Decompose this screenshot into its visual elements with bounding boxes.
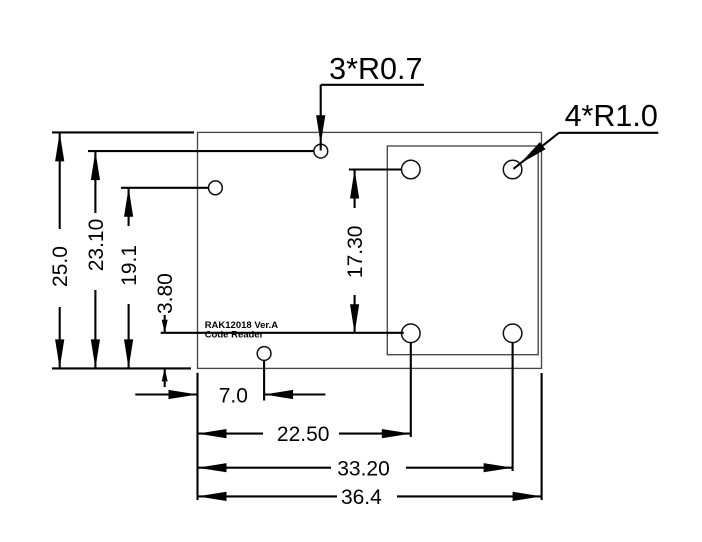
- svg-text:3*R0.7: 3*R0.7: [329, 52, 422, 86]
- dimension 23.10 line and arrows: [91, 151, 100, 368]
- dimension 33.20 extension line hole G: [512, 343, 514, 471]
- svg-text:4*R1.0: 4*R1.0: [565, 99, 658, 133]
- dimension 19.1 extension line: [121, 187, 209, 189]
- dimension 17.30 line and arrows: [350, 170, 359, 334]
- hole G module bottom-right R1.0: [503, 324, 522, 343]
- svg-text:Code Reader: Code Reader: [205, 330, 264, 341]
- dimension 25.0 line and arrows: [55, 132, 64, 368]
- hole A top R0.7: [314, 144, 328, 158]
- dimension 36.4 line and arrows: [198, 492, 542, 501]
- dimension 19.1 line and arrows: [124, 188, 133, 369]
- hole E module top-right R1.0: [503, 160, 522, 179]
- dimension 22.50 extension line hole F: [410, 343, 412, 437]
- dimension 3.80 lower arrow: [162, 368, 168, 387]
- svg-text:3.80: 3.80: [154, 273, 177, 314]
- board outline: [198, 132, 542, 368]
- dimension 25.0 extension line top: [52, 131, 194, 133]
- hole F module bottom-left R1.0: [402, 324, 421, 343]
- dimension 3.80 upper arrow: [162, 315, 168, 333]
- dimension 7.0 right arrow: [264, 390, 325, 399]
- leader 3*R0.7 lines and arrow: [316, 85, 424, 151]
- camera module outline: [387, 146, 538, 355]
- dimension 25.0 extension line bottom: [52, 367, 191, 369]
- dimension 33.20 line and arrows: [198, 463, 513, 472]
- svg-text:22.50: 22.50: [277, 423, 330, 446]
- extension line board left edge below: [196, 373, 198, 500]
- dimension 23.10 extension line: [88, 150, 314, 152]
- dimension 22.50 line and arrows: [198, 429, 411, 438]
- svg-text:19.1: 19.1: [118, 245, 141, 286]
- svg-text:17.30: 17.30: [344, 226, 367, 279]
- svg-text:23.10: 23.10: [85, 219, 108, 272]
- hole B left R0.7: [209, 181, 223, 195]
- dimension 36.4 extension line board right edge: [541, 373, 543, 500]
- svg-text:33.20: 33.20: [337, 457, 390, 480]
- svg-text:36.4: 36.4: [341, 486, 382, 509]
- dimension 17.30 extension line top: [349, 168, 402, 170]
- leader 4*R1.0 lines and arrow: [514, 133, 659, 169]
- silkscreen label RAK12018: [205, 320, 279, 341]
- svg-text:7.0: 7.0: [219, 385, 248, 408]
- hole C bottom R0.7: [257, 347, 271, 361]
- dimension 7.0 extension line hole C: [263, 361, 265, 401]
- dimension 7.0 left arrow: [135, 390, 197, 399]
- svg-text:25.0: 25.0: [49, 246, 72, 287]
- hole D module top-left R1.0: [402, 160, 421, 179]
- extension line bottom hole row: [161, 332, 404, 334]
